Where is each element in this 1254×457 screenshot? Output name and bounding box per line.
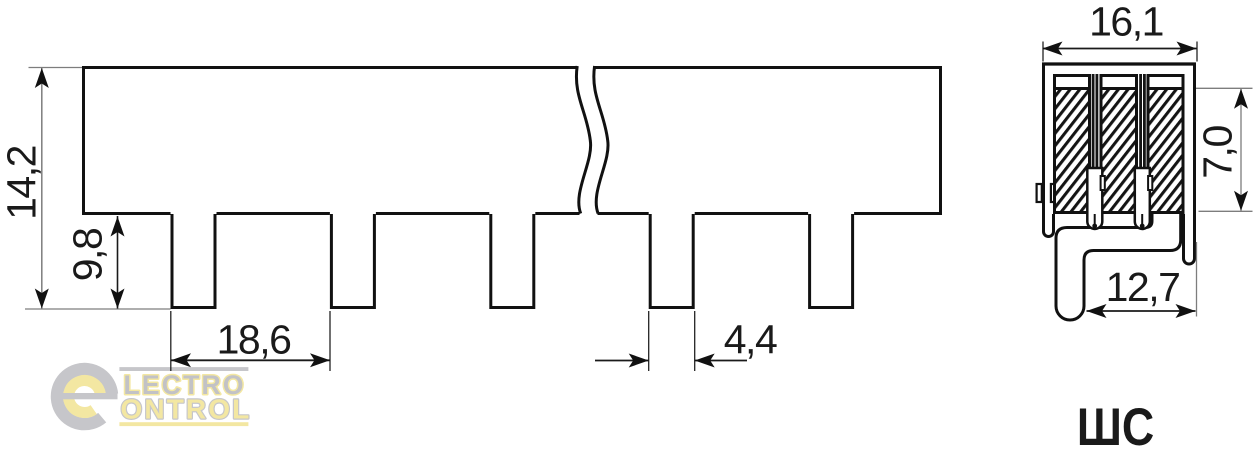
- dim line 14,2: [41, 68, 43, 309]
- logo bottom bar: [119, 422, 248, 426]
- body bottom edge segments: [82, 212, 171, 215]
- body top edge left segment: [82, 66, 577, 69]
- ext line top left: [29, 67, 83, 69]
- outer box top edge: [1042, 62, 1196, 65]
- pin 2: [330, 214, 376, 308]
- logo big e glyph yellow arc: [69, 380, 101, 412]
- pin 1: [171, 214, 217, 308]
- logo e crossbar: [62, 393, 118, 399]
- body left edge: [82, 66, 85, 215]
- pin 5: [808, 214, 854, 308]
- dim line 9,8: [117, 216, 119, 309]
- housing lower profile (foot + arm): [1056, 213, 1181, 320]
- body right edge: [939, 66, 942, 215]
- dim leads 4,4: [595, 360, 649, 362]
- pin A lower bullet: [1087, 168, 1102, 229]
- pin B upper strip: [1139, 74, 1142, 170]
- block 3: [1148, 76, 1183, 213]
- ext lines 4,4: [648, 311, 650, 371]
- dim line 18,6: [171, 359, 330, 361]
- break wave left: [576, 66, 590, 214]
- pin A upper strip: [1092, 74, 1095, 170]
- ext lines 16,1: [1042, 42, 1044, 62]
- logo big e glyph gray arc: [57, 369, 112, 424]
- svg-text:9,8: 9,8: [65, 228, 111, 281]
- break wave right: [594, 66, 608, 214]
- svg-text:18,6: 18,6: [217, 317, 291, 363]
- svg-text:12,7: 12,7: [1106, 264, 1180, 310]
- pin 3: [489, 214, 535, 308]
- left wall outline: [1044, 63, 1054, 237]
- ext line 12,7 right: [1196, 242, 1198, 317]
- body top edge right segment: [595, 66, 942, 69]
- right wall outline: [1184, 63, 1195, 264]
- svg-text:ONTROL: ONTROL: [121, 394, 252, 425]
- ext line bottom: [25, 308, 171, 310]
- svg-text:16,1: 16,1: [1089, 0, 1163, 45]
- block 2: [1101, 76, 1137, 213]
- pin B lower bullet: [1135, 168, 1150, 229]
- left wall latch bumps: [1037, 184, 1042, 202]
- dim line 7,0: [1240, 89, 1242, 211]
- logo top bar: [119, 367, 248, 371]
- pin 4: [649, 214, 695, 308]
- dim line 12,7: [1087, 310, 1196, 312]
- dim line 16,1: [1043, 48, 1197, 50]
- svg-text:7,0: 7,0: [1195, 126, 1241, 179]
- svg-text:ШС: ШС: [1077, 399, 1154, 457]
- svg-text:4,4: 4,4: [724, 317, 777, 363]
- block 1: [1055, 76, 1090, 213]
- svg-text:14,2: 14,2: [0, 146, 44, 220]
- ext lines 7,0: [1196, 87, 1253, 89]
- ext lines 18,6: [170, 311, 172, 371]
